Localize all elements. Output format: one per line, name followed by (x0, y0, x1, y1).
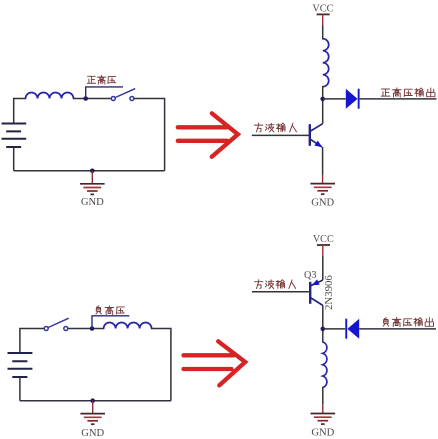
transistor Q3 designator (304, 270, 316, 281)
ground stub (red) (322, 175, 324, 184)
node: collector/diode junction (320, 97, 325, 102)
inductor L1 (horizontal coil) (26, 93, 74, 99)
wire: inductor to switch (74, 98, 112, 100)
label 负高压 text (96, 306, 125, 315)
wire: battery bottom to bottom rail (19, 377, 21, 401)
switch S1 (111, 89, 135, 101)
GND label (311, 428, 334, 439)
diode D1 (pointing right) (346, 89, 360, 109)
svg-text:GND: GND (81, 197, 104, 208)
VCC label (313, 234, 334, 245)
node B (label anchor dot) (90, 326, 95, 331)
wire: diode cathode to output (label underline) (360, 98, 437, 100)
wire: switch to inductor (68, 328, 104, 330)
VCC stub (red) (322, 245, 324, 256)
svg-text:VCC: VCC (312, 4, 333, 15)
transistor Q3 collector stroke (310, 298, 322, 306)
ground stub (red) (91, 171, 93, 184)
transistor Q1 emitter arrow (314, 141, 322, 148)
node: ground junction dot (90, 398, 95, 403)
VCC label (312, 4, 333, 15)
switch S2 (44, 318, 68, 330)
wire: junction to diode cathode (323, 328, 345, 330)
transistor Q1 emitter stroke (310, 139, 322, 147)
battery BT2 (8, 353, 33, 377)
wire bottom rail (14, 170, 165, 172)
ground symbol (bottom left) (80, 414, 105, 425)
label 正高压 text (87, 75, 116, 84)
wire top-left: battery top to inductor (14, 99, 26, 124)
label 正高压输出 text (381, 88, 435, 97)
wire: junction to diode anode (323, 98, 346, 100)
transistor Q3 base bar (309, 282, 311, 304)
node: ground junction dot (90, 169, 95, 174)
ground symbol (bottom right) (311, 414, 336, 425)
GND label (81, 197, 104, 208)
label 方波输入 text (254, 123, 296, 132)
battery BT1 (2, 124, 27, 148)
arrow (top, double-line with chevron) (178, 113, 238, 157)
wire: VCC to inductor (322, 26, 324, 39)
diode D2 (pointing left) (345, 319, 359, 339)
svg-text:GND: GND (311, 428, 334, 439)
VCC power bar (317, 244, 330, 246)
transistor Q1 base bar (309, 124, 311, 146)
node A (label anchor dot) (83, 96, 88, 101)
wire: inductor to ground (322, 388, 324, 405)
svg-text:2N3906: 2N3906 (323, 275, 335, 310)
wire: battery top to switch (20, 329, 44, 354)
VCC power bar (317, 13, 330, 15)
ground stub (red) (92, 401, 94, 414)
wire: VCC to emitter (322, 256, 324, 280)
VCC stub (red) (322, 14, 324, 25)
GND label (311, 197, 334, 208)
wire: input label underline to base (252, 134, 310, 136)
label 负高压 pointer line (92, 316, 129, 329)
inductor L2 (vertical coil) (323, 39, 329, 87)
ground symbol (right top) (310, 184, 335, 195)
transistor Q3 emitter arrow (312, 279, 320, 285)
label 方波输入 text (255, 280, 296, 289)
wire bottom rail (20, 400, 171, 402)
node: collector/diode junction (321, 327, 326, 332)
wire: collector down to junction (322, 305, 324, 342)
ground symbol (80, 184, 105, 195)
label 负高压输出 text (383, 317, 433, 326)
wire: input label underline to base (252, 291, 310, 293)
ground stub (red) (322, 404, 324, 413)
arrow (bottom, double-line with chevron) (184, 341, 246, 385)
transistor Q3 part number 2N3906 (rotated) (323, 275, 335, 310)
wire: inductor to right corner and down (152, 329, 171, 401)
GND label (81, 428, 104, 439)
label 正高压 pointer line (86, 87, 123, 99)
svg-text:Q3: Q3 (304, 270, 316, 281)
svg-text:VCC: VCC (313, 234, 334, 245)
transistor Q1 collector stroke (310, 124, 323, 132)
inductor L4 (vertical coil) (323, 342, 327, 388)
wire: battery bottom to bottom rail (13, 147, 15, 171)
wire: inductor to collector node (322, 87, 324, 124)
inductor L3 (horizontal coil) (104, 323, 152, 329)
svg-text:GND: GND (81, 428, 104, 439)
transistor Q3 emitter stroke (310, 280, 322, 286)
wire: switch to top-right corner and down (134, 99, 165, 171)
wire: emitter down to ground (322, 147, 324, 175)
svg-text:GND: GND (311, 197, 334, 208)
wire: diode anode to output (label underline) (359, 328, 436, 330)
